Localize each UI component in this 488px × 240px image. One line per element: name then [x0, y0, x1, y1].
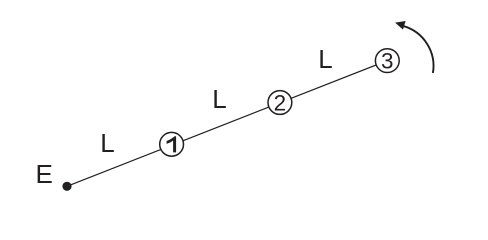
svg-text:3: 3 — [381, 49, 394, 74]
svg-text:L: L — [212, 84, 226, 114]
svg-text:E: E — [36, 159, 53, 189]
svg-text:L: L — [318, 44, 332, 74]
svg-text:2: 2 — [274, 90, 287, 115]
svg-text:L: L — [100, 128, 114, 158]
